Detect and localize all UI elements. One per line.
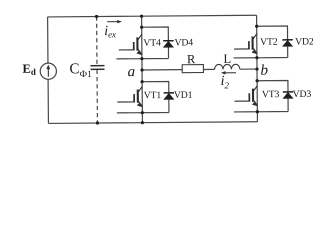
svg-text:VD4: VD4 bbox=[174, 37, 193, 48]
svg-text:VT3: VT3 bbox=[262, 89, 280, 100]
junction dots bbox=[95, 14, 259, 125]
diode VD2 bbox=[282, 40, 292, 47]
capacitor branch dashed lower bbox=[96, 70, 98, 123]
wire left leg bbox=[141, 16, 144, 122]
svg-text:a: a bbox=[127, 64, 135, 80]
node right leg / lower box bottom bbox=[256, 110, 259, 113]
node b bbox=[255, 67, 258, 70]
node bottom rail / left leg bbox=[141, 121, 144, 124]
node right leg / lower box top bbox=[255, 79, 258, 82]
wire lower-left cell box bbox=[117, 81, 169, 112]
node bottom rail / C branch bbox=[96, 121, 99, 124]
diode VD3 bbox=[283, 92, 293, 99]
transistor VT2 bbox=[234, 34, 257, 55]
diode VD1 bbox=[164, 93, 174, 100]
svg-text:VD2: VD2 bbox=[295, 36, 314, 47]
transistor VT1 bbox=[117, 87, 142, 108]
node a bbox=[140, 68, 143, 71]
wire bottom rail bbox=[48, 122, 257, 124]
svg-text:VT2: VT2 bbox=[260, 37, 278, 48]
wire upper-left cell box bbox=[116, 27, 168, 59]
wire left (source branch lower) bbox=[47, 79, 49, 123]
node left leg / lower box bottom bbox=[141, 111, 144, 114]
wire upper-right cell box bbox=[233, 26, 287, 58]
svg-text:VD3: VD3 bbox=[293, 89, 312, 100]
svg-text:L: L bbox=[223, 52, 231, 66]
svg-text:R: R bbox=[187, 52, 196, 66]
node top rail / left leg bbox=[140, 15, 143, 18]
capacitor branch dashed upper bbox=[96, 17, 98, 66]
inductor L bbox=[215, 64, 240, 69]
wire right leg bbox=[256, 15, 259, 121]
node left leg / upper box bottom bbox=[140, 57, 143, 60]
svg-text:i2: i2 bbox=[221, 74, 230, 90]
svg-text:CФ1: CФ1 bbox=[69, 61, 92, 80]
svg-text:iех: iех bbox=[104, 24, 116, 39]
resistor R bbox=[182, 65, 203, 73]
wire lower-right cell box bbox=[234, 81, 288, 112]
wire node a to R bbox=[142, 69, 182, 71]
wire top rail bbox=[48, 15, 257, 17]
node left leg / upper box top bbox=[140, 26, 143, 29]
svg-text:VT1: VT1 bbox=[144, 90, 162, 101]
wire R to L bbox=[203, 68, 214, 70]
current arrow i_2 bbox=[221, 71, 236, 75]
svg-text:VT4: VT4 bbox=[143, 38, 161, 49]
svg-text:b: b bbox=[260, 63, 268, 79]
current arrow i_vx bbox=[107, 20, 122, 24]
source E_d circle bbox=[40, 63, 56, 79]
wire left (source branch upper) bbox=[47, 17, 49, 63]
transistor VT4 bbox=[119, 34, 142, 55]
node left leg / lower box top bbox=[140, 80, 143, 83]
node top rail / C branch bbox=[95, 15, 98, 18]
wire L to node b bbox=[240, 68, 257, 70]
capacitor C_f1 plates bbox=[90, 66, 104, 70]
svg-text:VD1: VD1 bbox=[174, 90, 193, 101]
diode VD4 bbox=[163, 41, 173, 48]
node right leg / upper box top bbox=[255, 25, 258, 28]
svg-text:Ed: Ed bbox=[22, 62, 35, 77]
source E_d arrow bbox=[46, 64, 50, 76]
node right leg / upper box bottom bbox=[255, 56, 258, 59]
transistor VT3 bbox=[234, 86, 257, 107]
